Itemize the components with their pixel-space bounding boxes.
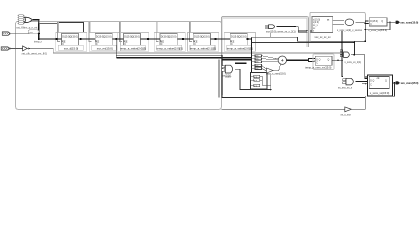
svg-text:xx_xxx_xx_x: xx_xxx_xx_x xyxy=(338,86,353,89)
wire CE drop xyxy=(156,22,158,42)
svg-text:D(15:0): D(15:0) xyxy=(370,21,378,23)
svg-text:temp_x: temp_x xyxy=(34,41,43,44)
wire adder out xyxy=(287,59,309,61)
svg-text:xx_x_xxx: xx_x_xxx xyxy=(341,113,352,116)
svg-text:Q: Q xyxy=(381,21,383,23)
wire B10 out xyxy=(332,59,342,61)
register stage U4 xyxy=(154,33,185,52)
svg-text:xxx_en[15:0]: xxx_en[15:0] xyxy=(97,46,113,50)
svg-text:D Q: D Q xyxy=(316,59,320,61)
junction dot J4 xyxy=(115,38,117,40)
wire clk in xyxy=(10,48,23,50)
svg-text:xxxx_x_xxxx(15:0): xxxx_x_xxxx(15:0) xyxy=(266,72,286,75)
svg-text:Q(15:0): Q(15:0) xyxy=(168,35,176,38)
svg-text:xxx_xxxx(15:0): xxx_xxxx(15:0) xyxy=(400,22,418,25)
svg-text:temp_a_value[2:1][5]: temp_a_value[2:1][5] xyxy=(190,46,216,50)
svg-text:Q: Q xyxy=(328,59,330,61)
junction dot J5 xyxy=(147,38,149,40)
small mux triangle xyxy=(267,68,274,73)
wire G3 out xyxy=(276,26,296,28)
svg-text:xxx_d[15:0]: xxx_d[15:0] xyxy=(64,46,79,50)
wire G2 out xyxy=(235,69,271,89)
junction dot J8 xyxy=(246,38,248,40)
wire feedback tap xyxy=(116,39,222,58)
connector wires to adder xyxy=(262,56,279,59)
junction dot J1 xyxy=(38,38,40,40)
register stage U6 xyxy=(224,33,255,52)
svg-text:temp_a_value[2:0][5]: temp_a_value[2:0][5] xyxy=(157,46,183,50)
svg-text:temp_a_xxxx_xx(15:0): temp_a_xxxx_xx(15:0) xyxy=(305,65,331,69)
wire CE drop xyxy=(119,22,121,42)
junction dot J7 xyxy=(214,38,216,40)
module boundary R3 (fill block, top right) xyxy=(310,12,366,41)
wire E1 out xyxy=(355,21,365,23)
register stage U3 xyxy=(118,33,149,52)
wire CE net jogs xyxy=(39,22,58,24)
wire bus segment 4 xyxy=(141,38,160,40)
svg-text:Q(15:0): Q(15:0) xyxy=(103,35,111,38)
svg-text:x_xxxx_xx(15:0): x_xxxx_xx(15:0) xyxy=(370,91,390,95)
and-gate G5 xyxy=(344,52,350,57)
junction dot J3 xyxy=(80,38,82,40)
wire G2 feed vertical xyxy=(218,60,220,98)
wire B8 out + output port OUT1 xyxy=(387,21,395,23)
buffer B11 (bottom) xyxy=(345,107,352,112)
wire bus segment 7 xyxy=(248,38,252,40)
wire bus segment 2 xyxy=(79,38,95,40)
register stage U1 xyxy=(56,33,87,52)
wire vertical net V2 xyxy=(365,55,368,79)
module boundary R2 (middle block) xyxy=(221,17,308,95)
lut input pads (stack) xyxy=(19,15,24,25)
svg-text:xst_Xilinx_p_n_rst: xst_Xilinx_p_n_rst xyxy=(16,25,37,29)
svg-text:temp_a_value[2:0][5]: temp_a_value[2:0][5] xyxy=(227,46,253,50)
or-gate U_rst (reset OR) xyxy=(25,17,33,22)
adder circle xyxy=(278,56,286,64)
wire long net B xyxy=(251,41,354,43)
buffer ellipse E1 xyxy=(333,19,345,21)
wire (bottom net extension of R1 boundary) xyxy=(221,108,344,110)
wire into cluster xyxy=(222,59,251,61)
wire OR out xyxy=(33,20,39,39)
and-gate G2 xyxy=(222,66,225,68)
svg-text:x(2|0): x(2|0) xyxy=(225,76,231,78)
svg-text:x(15:0): x(15:0) xyxy=(313,19,320,21)
register stage U5 xyxy=(188,33,219,52)
net label tag xyxy=(28,30,39,34)
module boundary R1 (top-level left block) xyxy=(16,21,222,109)
wire CE drop xyxy=(89,22,91,42)
wire netA rise to B8 xyxy=(364,24,366,42)
lut input column xyxy=(255,55,262,57)
svg-text:Q(15:0): Q(15:0) xyxy=(70,35,78,38)
svg-text:temp_a_value[2:0][5]: temp_a_value[2:0][5] xyxy=(120,46,146,50)
svg-text:Q(15:0): Q(15:0) xyxy=(238,35,246,38)
svg-text:XXXX: XXXX xyxy=(3,32,11,36)
wire B9 out + output port OUT2 xyxy=(393,82,396,84)
wire CE drop xyxy=(189,22,191,42)
wire bus segment 6 xyxy=(211,38,231,40)
svg-text:Q(15:0): Q(15:0) xyxy=(132,35,140,38)
register B9 (selected, black outline) xyxy=(367,75,392,96)
junction dot J6 xyxy=(182,38,184,40)
register stage U2 xyxy=(89,33,120,52)
svg-text:xxx_xx_xx_xx: xxx_xx_xx_xx xyxy=(315,36,332,39)
svg-text:x_xxxx_xx(2)_x_xxxxxx: x_xxxx_xx(2)_x_xxxxxx xyxy=(337,29,363,32)
wire buffer out up to loop xyxy=(351,96,365,109)
buffer U_ibuf (clk buffer) xyxy=(23,46,28,51)
wire bus segment 1 xyxy=(39,38,62,40)
input port rst (top left) xyxy=(2,32,10,35)
wire long net A xyxy=(251,37,365,41)
wire CE drop xyxy=(57,22,59,42)
wire G5 out xyxy=(351,54,365,56)
junction dot J2 xyxy=(55,38,57,40)
wire G4 out xyxy=(356,81,368,83)
wire bus segment 3 xyxy=(113,38,124,40)
register B10 xyxy=(313,54,334,70)
wire bus segment 5 xyxy=(177,38,193,40)
svg-text:x_xxxx_xx_1(1): x_xxxx_xx_1(1) xyxy=(345,61,362,64)
wire loop left/bottom (black) xyxy=(222,55,365,97)
wire feedback thick xyxy=(116,57,252,59)
svg-text:x_xxxx_xx(15:1): x_xxxx_xx(15:1) xyxy=(368,28,387,32)
register B8 xyxy=(369,18,387,26)
and-gate G3 xyxy=(266,25,268,27)
and-gate G4 xyxy=(343,79,346,81)
svg-text:xst_clk_wext_en_IN1: xst_clk_wext_en_IN1 xyxy=(22,52,48,56)
wire clk distribution xyxy=(27,48,342,53)
wire S6 out vertical xyxy=(250,37,252,72)
wire V1b xyxy=(353,42,355,54)
wire vertical net V1 xyxy=(341,31,344,77)
mux M2 (lower lut block) xyxy=(251,73,268,89)
svg-text:Q(15:0): Q(15:0) xyxy=(202,35,210,38)
input port clk (bottom left) xyxy=(1,47,10,50)
svg-text:x(2:0): x(2:0) xyxy=(313,22,319,24)
wire rst xyxy=(10,33,39,35)
block B7 xyxy=(312,17,333,33)
svg-text:Q: Q xyxy=(385,81,387,83)
svg-text:xxx_xxxx(15:0): xxx_xxxx(15:0) xyxy=(401,82,419,85)
svg-text:D Q: D Q xyxy=(370,81,374,83)
